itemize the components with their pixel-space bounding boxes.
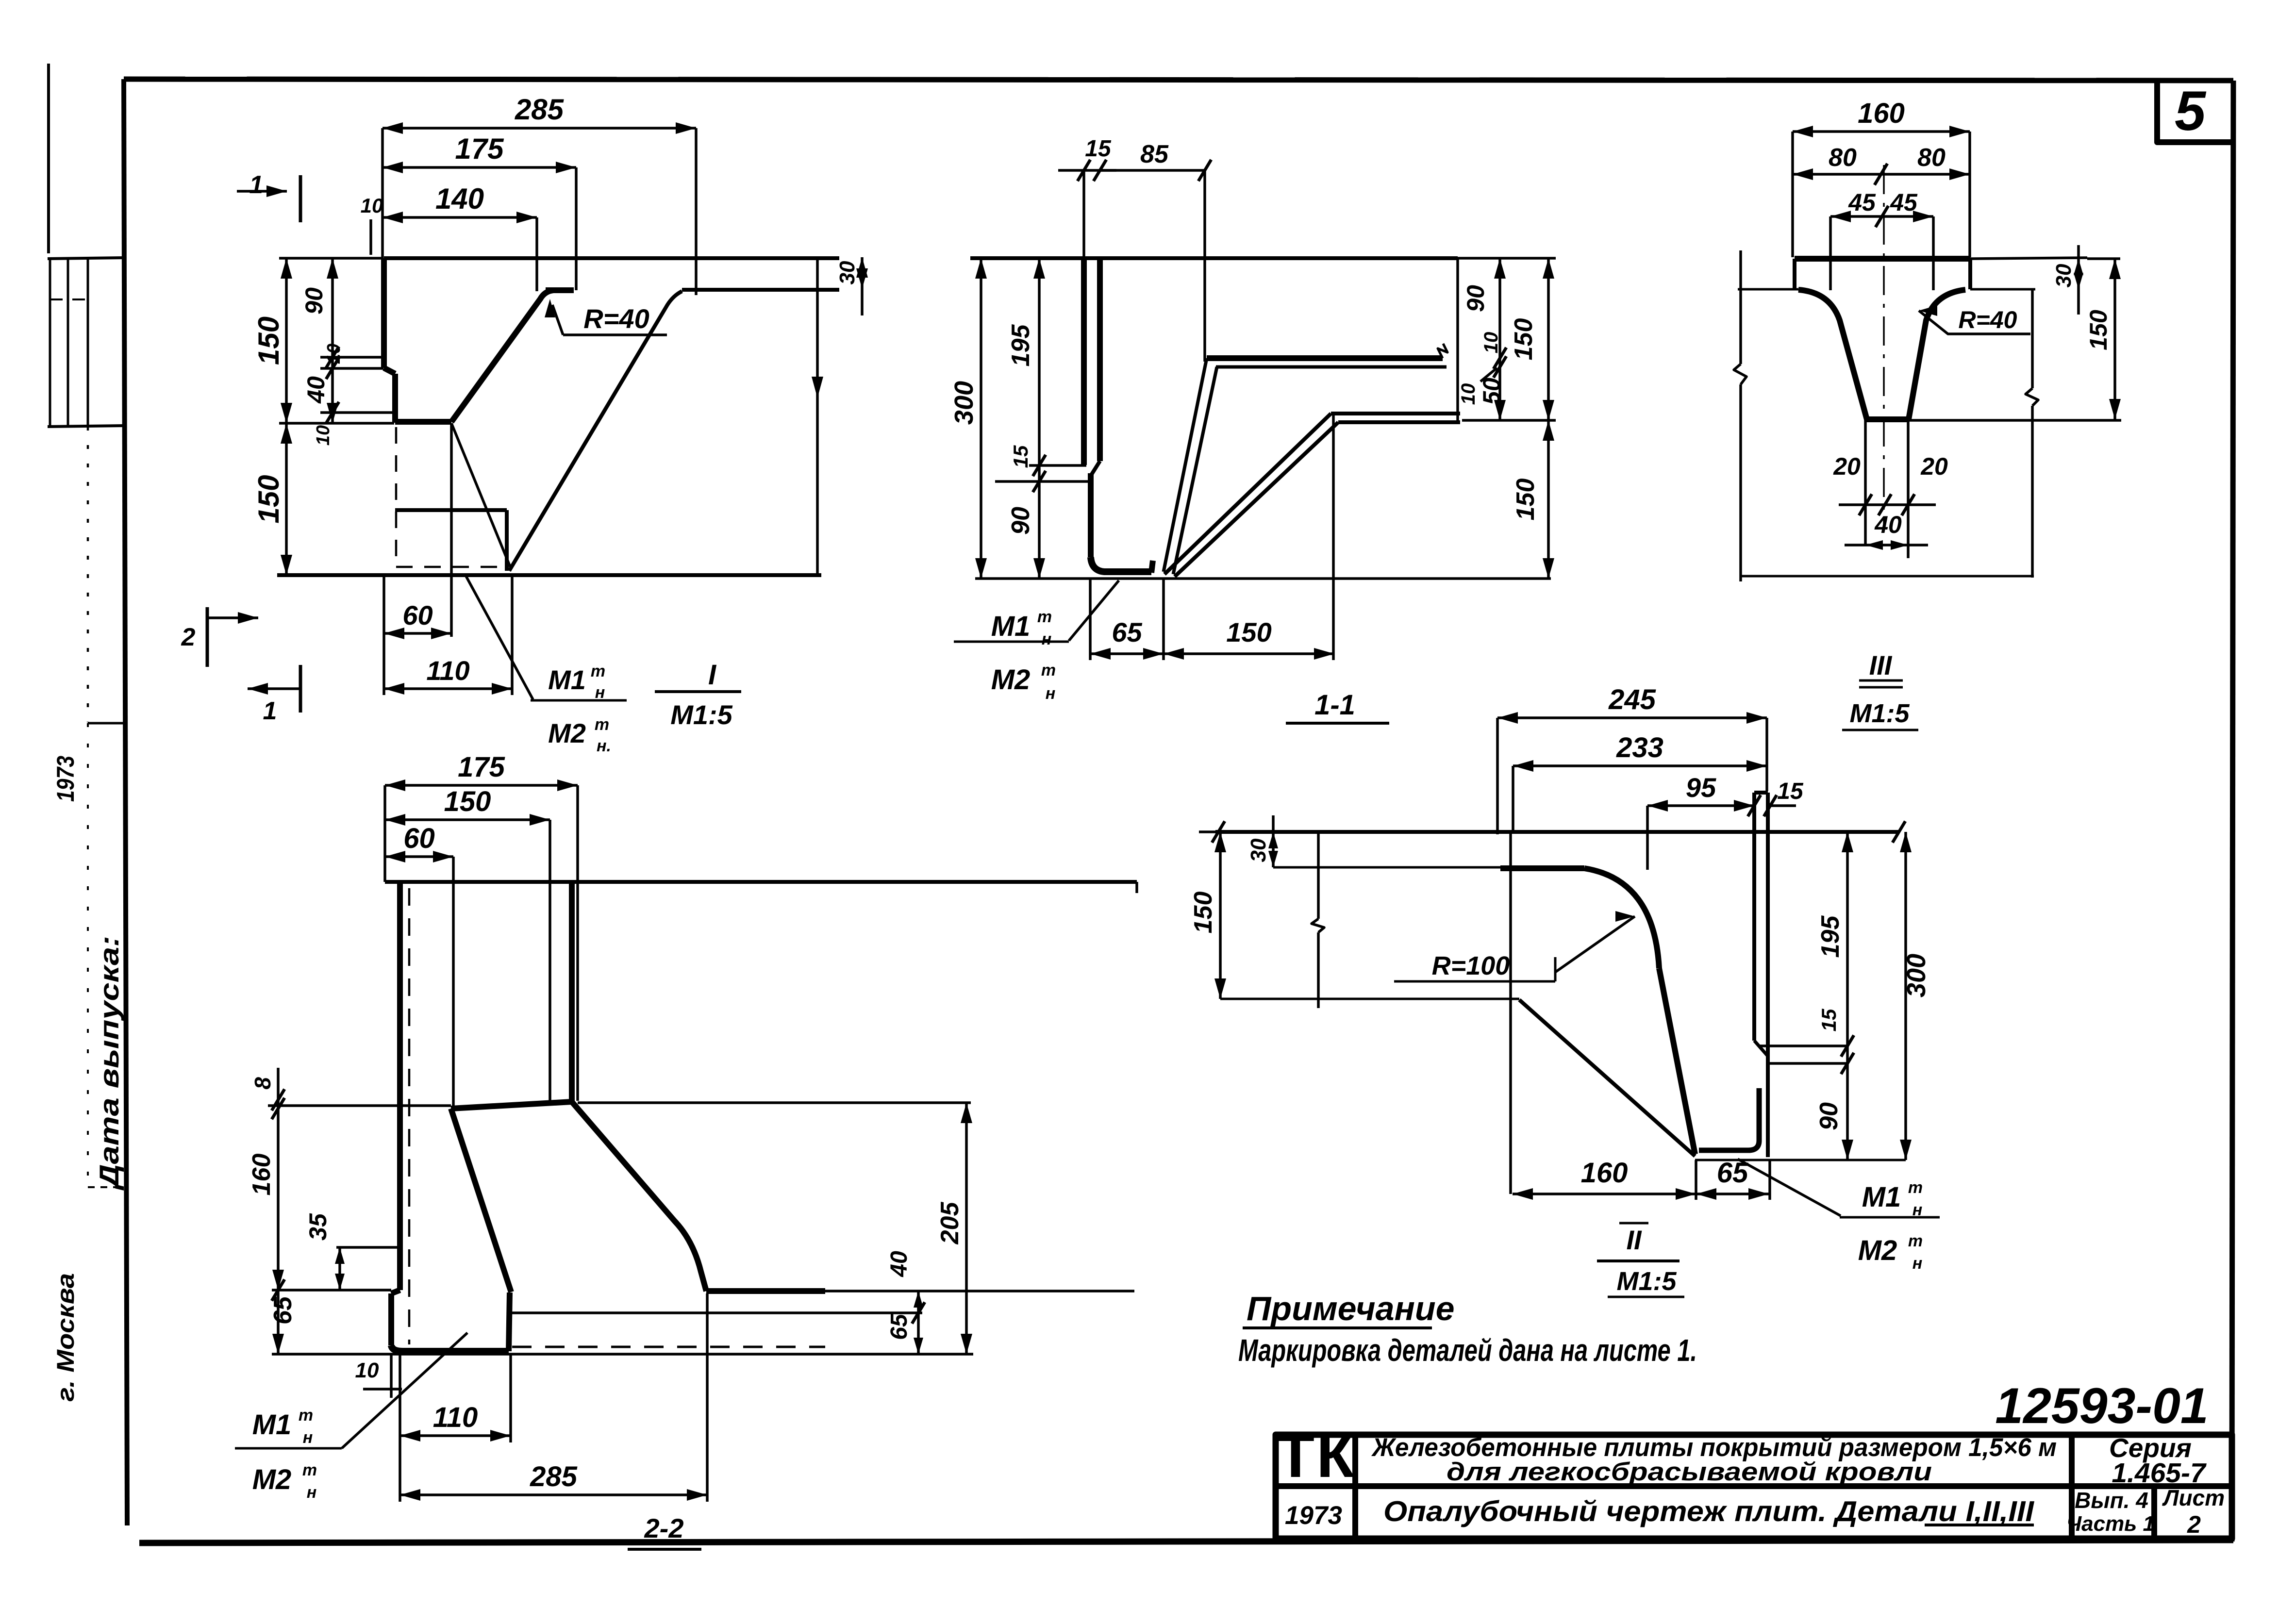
dim 30 right of detail I (861, 257, 864, 289)
chain slash 756r (1494, 356, 1506, 378)
detail I plate rectangle right (505, 510, 509, 571)
svg-text:90: 90 (300, 287, 328, 315)
margin stamp vertical 2 (67, 259, 69, 427)
cut mark 1 bottom bar (299, 665, 302, 713)
dim 85 slashes (1198, 160, 1211, 181)
margin stamp dashed divider (50, 298, 88, 300)
dim 30 of III (2077, 259, 2080, 289)
svg-text:М1:5: М1:5 (1849, 699, 1910, 728)
svg-text:45: 45 (1848, 189, 1876, 216)
svg-text:150: 150 (1510, 318, 1538, 361)
svg-text:285: 285 (530, 1461, 578, 1492)
svg-text:30: 30 (1247, 838, 1270, 862)
2-2 chamfer diagonal left (451, 1109, 511, 1292)
1-1 foot lip (1091, 557, 1151, 572)
svg-text:300: 300 (1902, 954, 1931, 997)
R=40 arrowhead (545, 299, 555, 317)
ext 2155 (1760, 1044, 1847, 1047)
2-2 left face (397, 882, 403, 1290)
R=100 center tick (1554, 957, 1557, 981)
II wall chamfer (1754, 1041, 1768, 1056)
detail III flange left side (1793, 259, 1796, 289)
svg-text:R=40: R=40 (1959, 306, 2017, 333)
dim 110 of 2-2 (400, 1434, 511, 1437)
1-1 rib steep face outer (1164, 358, 1207, 572)
label M1 underline of 1-1 (954, 641, 1069, 643)
ext 533 of III outer (2087, 257, 2120, 260)
svg-text:III: III (1869, 650, 1893, 680)
detail III right boundary (2031, 289, 2034, 388)
dim 40-65 chain of 2-2 (917, 1291, 920, 1354)
2-2 bottom shelf heavy (706, 1288, 825, 1294)
ext 110 right (511, 575, 514, 695)
svg-text:1: 1 (249, 171, 264, 199)
svg-text:1973: 1973 (52, 756, 79, 802)
ext 150 right 2-2 (549, 820, 551, 1103)
ext 864 of III (1909, 419, 2121, 422)
svg-text:30: 30 (835, 261, 859, 284)
chain slash 2191 (1841, 1053, 1854, 1074)
section 1-1 label underline (1286, 722, 1389, 725)
II wall inner (1766, 793, 1770, 1157)
chain arrows 2-2 (914, 1291, 923, 1308)
svg-text:233: 233 (1616, 732, 1663, 763)
dim 95 of II (1647, 804, 1754, 807)
dim 30 arrows III (2074, 259, 2083, 275)
2-2 lower line (510, 1311, 922, 1314)
svg-text:Маркировка деталей дана на лис: Маркировка деталей дана на листе 1. (1238, 1333, 1697, 1368)
svg-text:н: н (303, 1428, 313, 1447)
dim 8 slashes (272, 1089, 284, 1110)
dim 175 of detail I (382, 166, 576, 169)
2-2 left step (391, 1290, 400, 1293)
margin tick 2450 (88, 1186, 124, 1188)
dim 45-45 arrows (1830, 211, 1851, 222)
dim 40 arrows III (1865, 540, 1883, 550)
svg-text:60: 60 (403, 823, 435, 854)
1-1 wall outer face (1081, 258, 1087, 465)
ext 65 mid (1695, 1160, 1697, 1200)
svg-text:110: 110 (426, 655, 469, 686)
ext bottom left 1-1 (975, 577, 1037, 580)
svg-text:160: 160 (1858, 98, 1905, 129)
dim 245 of II (1497, 716, 1767, 719)
II wall top hook (1754, 791, 1768, 795)
svg-text:М2: М2 (548, 718, 586, 748)
svg-text:Вып. 4: Вып. 4 (2075, 1488, 2148, 1513)
view label I bar (655, 690, 741, 693)
ext 160 right (1968, 132, 1971, 257)
dim 8 line tails (277, 1068, 280, 1100)
dim 140 of detail I (382, 216, 537, 219)
dim 65 of 2-2 (277, 1290, 280, 1354)
dim 15 tail (1770, 804, 1796, 807)
R=100 arrowhead (1615, 911, 1635, 922)
detail III flange top (1795, 256, 1970, 262)
svg-text:160: 160 (1581, 1157, 1628, 1189)
sheet frame bottom border (139, 1540, 2233, 1543)
dim 150 lower left of detail I (285, 423, 288, 575)
svg-text:т: т (302, 1461, 317, 1479)
dim 285 of 2-2 (400, 1493, 707, 1496)
dim 15 slash a (1748, 795, 1761, 816)
svg-text:10: 10 (355, 1359, 379, 1382)
svg-text:10: 10 (1480, 332, 1502, 354)
dim chain 90-10-40-10 line (331, 258, 334, 423)
leader of 1-1 (1069, 580, 1119, 641)
detail III right break (2026, 388, 2038, 406)
chain slash 736 (326, 347, 339, 368)
ext 45 right (1932, 216, 1935, 290)
detail I top surface line (384, 256, 839, 260)
II baseline (1695, 1159, 1906, 1161)
view label III scale underline (1842, 729, 1918, 731)
ext 150 bottom (279, 574, 383, 577)
ext shelf end vertical (1456, 258, 1459, 422)
dim 205 of 2-2 (965, 1103, 968, 1354)
ext 65 right (1162, 579, 1165, 660)
svg-text:М2: М2 (1858, 1235, 1897, 1266)
svg-text:80: 80 (1829, 144, 1857, 172)
detail I chamfer heavy diagonal (451, 290, 553, 422)
svg-text:R=40: R=40 (583, 303, 649, 334)
ext 175 right (575, 167, 578, 290)
ext 65 left (1089, 579, 1092, 660)
dim 40 tails (1845, 544, 1865, 547)
1-1 wall inner chamfer (1092, 461, 1100, 474)
detail I left face upper (381, 258, 387, 368)
svg-text:35: 35 (304, 1213, 332, 1241)
margin stamp bottom line (48, 426, 125, 427)
ext 45 left (1829, 216, 1832, 290)
svg-text:II: II (1626, 1225, 1642, 1255)
II chamfer diagonal (1519, 1000, 1695, 1156)
label M1 underline 2-2 (235, 1447, 342, 1450)
1-1 rib steep face inner (1173, 367, 1217, 574)
margin dashed vertical lower (87, 723, 89, 1184)
svg-text:90: 90 (1815, 1102, 1843, 1130)
ext 532 right (1458, 257, 1556, 260)
detail III flange right side (1968, 259, 1972, 289)
dim 10 leader line (1480, 368, 1497, 381)
svg-text:150: 150 (1189, 892, 1217, 934)
1-1 slope lower outer (1164, 414, 1331, 574)
svg-text:175: 175 (455, 133, 504, 165)
svg-text:н: н (1046, 684, 1056, 703)
II wall outer (1752, 793, 1756, 1041)
II R100 curve (1584, 868, 1659, 968)
dim 65 of II (1696, 1193, 1769, 1195)
svg-text:150: 150 (444, 786, 491, 817)
svg-text:8: 8 (250, 1077, 275, 1090)
svg-text:М1:5: М1:5 (670, 699, 732, 730)
section 2-2 label underline (628, 1548, 701, 1551)
dim 45-45 of III (1830, 215, 1933, 218)
dim 175 of 2-2 (385, 784, 578, 787)
svg-text:10: 10 (1458, 383, 1479, 405)
dim 30 tails II (1272, 815, 1275, 832)
view label III underline2 (1859, 686, 1903, 689)
chain arrows II (1842, 832, 1853, 852)
1-1 wall inner face (1097, 258, 1103, 461)
svg-text:175: 175 (458, 751, 505, 783)
dim 35 of 2-2 (338, 1247, 341, 1290)
svg-text:1.465-7: 1.465-7 (2112, 1458, 2207, 1489)
svg-text:40: 40 (1874, 511, 1902, 538)
ext 285 right (695, 128, 698, 295)
svg-text:Лист: Лист (2162, 1485, 2225, 1510)
chain slash 759 (326, 358, 339, 379)
dim 150 upper right of 1-1 (1547, 258, 1550, 420)
svg-text:М1: М1 (548, 664, 586, 695)
dim 150 bottom of 1-1 (1164, 652, 1334, 655)
dim 150 of III (2113, 259, 2116, 419)
detail III throat bottom (1865, 416, 1909, 422)
dim 45-45 center slash (1876, 206, 1888, 227)
svg-text:М1: М1 (991, 611, 1031, 642)
svg-text:150: 150 (252, 475, 285, 523)
svg-text:95: 95 (1686, 772, 1716, 803)
svg-text:140: 140 (435, 182, 484, 215)
svg-text:65: 65 (886, 1313, 912, 1340)
svg-text:т: т (1037, 608, 1052, 626)
ext 110 right 2-2 (509, 1354, 512, 1442)
2-2 left ext line (268, 1104, 451, 1107)
dim chain 90-10-50 of 1-1 (1498, 258, 1501, 420)
2-2 chamfer diagonal right (572, 1102, 706, 1291)
note heading underline (1243, 1326, 1432, 1329)
1-1 lower shelf lower (1338, 420, 1460, 424)
svg-text:М1: М1 (1862, 1181, 1901, 1213)
dim 40 of III (1865, 544, 1908, 547)
detail I inner corner diagonal (451, 423, 511, 568)
2-2 rib vertical (569, 882, 575, 1102)
ext 150 top (279, 257, 383, 260)
II foot hook vertical (1699, 1088, 1759, 1150)
ext 10 (369, 219, 372, 255)
dim 150 left of II (1219, 832, 1222, 999)
ext 285 left 2-2 (399, 1436, 401, 1502)
svg-text:Примечание: Примечание (1247, 1290, 1455, 1327)
view label II scale underline (1608, 1296, 1684, 1298)
ext 2272 right (578, 1101, 971, 1104)
svg-text:150: 150 (1512, 479, 1540, 521)
svg-text:I: I (708, 659, 717, 691)
svg-text:15: 15 (1817, 1009, 1840, 1031)
ext 992 (995, 480, 1090, 483)
detail I hidden left edge dashed (395, 427, 398, 568)
1-1 wall lower stem (1088, 473, 1094, 557)
dim 15 slashes (1078, 160, 1090, 181)
ext 959 (1029, 464, 1086, 467)
svg-text:2: 2 (181, 623, 196, 651)
svg-text:45: 45 (1890, 189, 1918, 216)
section 2-2 top surface (385, 880, 1137, 884)
detail I rib edge stub (546, 287, 574, 293)
svg-text:2-2: 2-2 (644, 1513, 684, 1543)
detail I plate rectangle top (395, 508, 507, 512)
dim 65 of 1-1 (1090, 652, 1164, 655)
underline detail refs (1925, 1524, 2034, 1526)
dim 15 slash b (1764, 795, 1777, 816)
sheet frame top border (124, 79, 2233, 81)
leader of 2-2 (342, 1333, 467, 1448)
svg-text:М1: М1 (252, 1409, 292, 1441)
ext 1714 left (1199, 830, 1215, 833)
2-2 left stem (388, 1293, 394, 1345)
view label III underline1 (1859, 679, 1903, 682)
svg-text:10: 10 (313, 425, 333, 446)
dim 300 of II (1904, 832, 1907, 1160)
ext 140 right (535, 217, 538, 291)
title block row divider (1276, 1483, 2232, 1489)
ext 60 right 2-2 (452, 857, 455, 1108)
dim 233 of II (1513, 764, 1767, 767)
dim 160 of II (1513, 1193, 1696, 1195)
detail III surface left (1738, 288, 1798, 291)
svg-text:1: 1 (263, 697, 277, 725)
title block sheet divider (2151, 1486, 2157, 1539)
title block TK divider (1352, 1435, 1358, 1539)
ext 40 notch (320, 367, 383, 370)
2-2 right end tick (1135, 882, 1138, 893)
svg-text:205: 205 (936, 1202, 964, 1245)
2-2 baseline (272, 1353, 973, 1356)
svg-text:12593-01: 12593-01 (1995, 1378, 2209, 1434)
dim 15 tail (1058, 169, 1084, 172)
R=100 underline (1394, 980, 1555, 983)
svg-text:для легкосбрасываемой кровли: для легкосбрасываемой кровли (1447, 1458, 1932, 1486)
title block series divider (2069, 1435, 2075, 1539)
svg-text:М2: М2 (991, 664, 1031, 696)
svg-text:т: т (1908, 1232, 1923, 1250)
II left ext vertical (1509, 832, 1512, 1194)
cut mark 1 bottom line (248, 687, 300, 690)
chain arrows 1-1 right (1494, 258, 1506, 279)
svg-text:80: 80 (1917, 144, 1946, 172)
svg-text:т: т (1908, 1178, 1923, 1197)
dim 30 tails (2077, 245, 2080, 259)
svg-text:90: 90 (1007, 507, 1035, 535)
margin tick 1490 (88, 722, 124, 725)
detail I hidden bottom edge dashed (396, 566, 508, 568)
dim 65 arrows 2-2 (272, 1334, 284, 1354)
ext 150 mid (279, 422, 394, 425)
dim 110 of detail I (384, 687, 512, 690)
1-1 foot hook (1151, 561, 1153, 573)
dim 80-80 of III (1793, 173, 1970, 176)
svg-text:15: 15 (1085, 136, 1112, 162)
cut mark 1 top bar (299, 175, 302, 222)
svg-text:Часть 1: Часть 1 (2066, 1512, 2155, 1536)
ext 285 left (381, 128, 384, 258)
2-2 foot lip (391, 1345, 509, 1351)
ext 2658 left (272, 1289, 391, 1292)
dim 35 arrows (335, 1247, 345, 1264)
svg-text:160: 160 (248, 1154, 276, 1196)
II surface thin 30 (1273, 866, 1500, 869)
paper edge line (47, 64, 50, 253)
cut trace arrow (812, 377, 823, 398)
svg-text:150: 150 (1226, 617, 1271, 647)
dim 285 of detail I (382, 127, 696, 130)
ext 150 right vert (1332, 414, 1335, 660)
ext 245 left (1496, 718, 1499, 834)
detail I chamfer thin diagonal (509, 291, 682, 571)
chain slash 2705 (912, 1302, 925, 1324)
sheet number box (2157, 83, 2232, 142)
svg-text:195: 195 (1816, 915, 1845, 958)
svg-text:М1:5: М1:5 (1616, 1267, 1677, 1296)
detail I rib edge line (682, 288, 839, 292)
detail I extension through 60 (450, 423, 453, 637)
view label II bar (1597, 1259, 1680, 1262)
dim 150 lower right of 1-1 (1547, 420, 1550, 579)
dim 150 of 2-2 (385, 818, 550, 821)
dim 30 line tail (861, 289, 864, 315)
svg-text:1973: 1973 (1285, 1501, 1342, 1530)
detail III throat right below (1907, 419, 1910, 558)
cut mark 1 top line (237, 190, 287, 193)
dim 150 upper left of detail I (285, 258, 288, 423)
detail I left face lower (392, 374, 398, 423)
svg-text:т: т (595, 715, 609, 734)
ext 95 left (1646, 806, 1649, 870)
sheet frame right border (2232, 81, 2233, 1541)
dim 300 left of 1-1 (980, 258, 982, 579)
1-1 slope lower inner (1175, 422, 1338, 577)
margin stamp top line (48, 258, 124, 259)
svg-text:285: 285 (515, 93, 565, 126)
detail III left break (1734, 364, 1746, 384)
ext 160 left (1791, 132, 1794, 257)
label M1 underline (531, 699, 627, 702)
dim 160 of III (1793, 130, 1970, 133)
II top left tick (1212, 821, 1225, 843)
svg-text:н.: н. (597, 737, 611, 755)
dim 80-80 arrows (1793, 168, 1813, 180)
leader to plate of detail I (466, 576, 533, 699)
sheet frame left border (124, 79, 127, 1525)
ext 533 to 30dim (1970, 258, 2087, 259)
R=40 leader of detail I (563, 333, 667, 336)
ext 65 right end (1768, 1161, 1771, 1200)
svg-text:15: 15 (1009, 445, 1032, 468)
svg-text:г. Москва: г. Москва (52, 1273, 79, 1402)
svg-text:Дата выпуска:: Дата выпуска: (94, 936, 124, 1191)
dim 85 of 1-1 (1100, 169, 1205, 172)
detail I bottom line (277, 573, 821, 577)
ext 35 top (336, 1246, 398, 1249)
svg-text:65: 65 (1112, 617, 1142, 647)
dim 160 arrows (272, 1270, 284, 1290)
ext 866 right (1462, 419, 1556, 422)
detail III bottom boundary (1741, 575, 2034, 578)
cut mark 2 bottom line (207, 616, 258, 619)
dim 60 of 2-2 (385, 855, 453, 858)
svg-text:150: 150 (2085, 310, 2112, 350)
dim 20-20 of III (1839, 503, 1936, 506)
ext 90 notch (320, 356, 383, 359)
section 1-1 top surface line (970, 256, 1458, 260)
2-2 shoulder line (451, 1102, 572, 1109)
svg-text:5: 5 (2175, 80, 2207, 142)
ext 10 b (399, 1354, 401, 1436)
II broken ext vertical (1317, 832, 1320, 919)
2-2 hidden bottom dashed (512, 1346, 825, 1348)
svg-text:н: н (595, 683, 605, 702)
dim 8 of 2-2 (277, 1100, 280, 1109)
